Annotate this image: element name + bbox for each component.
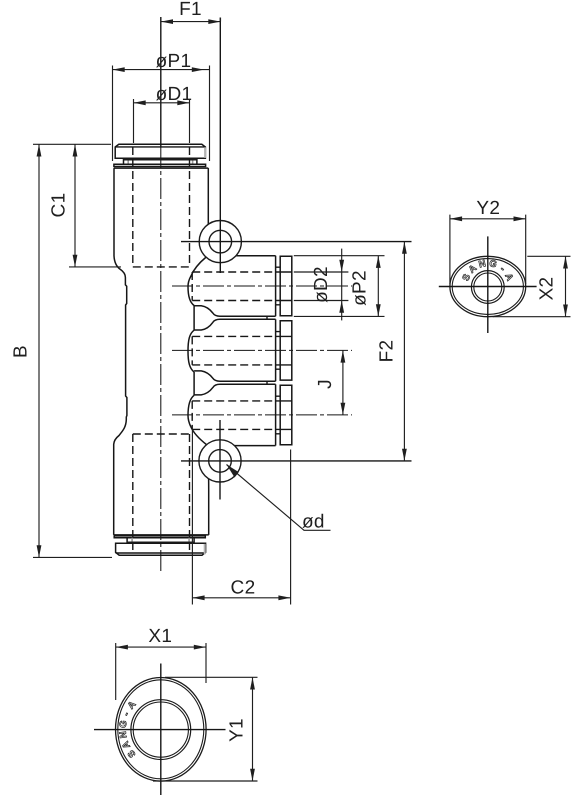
right view inner circle [471, 271, 504, 304]
right view outer oval [450, 256, 526, 316]
bottom view SANG-A engraving [118, 699, 139, 759]
svg-text:X2: X2 [537, 277, 558, 301]
svg-text:Y1: Y1 [226, 718, 247, 742]
branch 3 end face [275, 384, 277, 445]
branch 3 [172, 384, 352, 445]
bottom collet band [127, 538, 194, 544]
branch 1 [172, 256, 352, 317]
branch 2 bore hidden [192, 336, 275, 365]
dimension Y2 [450, 198, 526, 284]
branch 3 bore lines through cap [276, 401, 292, 430]
branch 3 centerline [172, 414, 352, 416]
stem tick 1 [266, 316, 268, 319]
body tube right edge (upper) [207, 168, 209, 226]
right view centerlines [439, 286, 537, 288]
svg-text:J: J [315, 379, 336, 389]
funnel 2 lower lip [194, 384, 276, 395]
svg-text:øP2: øP2 [350, 270, 371, 306]
scallop to bottom boss curve [191, 427, 207, 446]
branch 1 cap [280, 256, 292, 315]
right view SANG-A engraving [461, 258, 516, 283]
svg-text:ød: ød [302, 512, 325, 533]
bottom collet: tube bottom lines [114, 534, 209, 536]
svg-text:øP1: øP1 [156, 51, 192, 72]
funnel 1 upper lip [194, 306, 276, 316]
funnel 1 vertical face [193, 306, 195, 331]
svg-text:Y2: Y2 [476, 198, 500, 219]
dimension øD2 [294, 249, 349, 321]
svg-text:C2: C2 [231, 578, 256, 599]
stem tick 2 [266, 381, 268, 384]
dimension øP2 [294, 256, 385, 317]
bottom boss circle centerlines [219, 420, 221, 500]
dimension øD1 [134, 84, 193, 143]
scallop arc at branch 2 [188, 330, 194, 372]
branch 1 top edge [205, 255, 276, 257]
dimension Y1 [153, 677, 258, 781]
scallop arc at branch 3 [188, 395, 194, 426]
funnel 1 lower lip [194, 319, 276, 330]
branch 2 end face [275, 319, 277, 381]
dimension F1 [161, 0, 221, 24]
branch 3 bore hidden [192, 401, 275, 430]
svg-text:F2: F2 [377, 340, 398, 363]
svg-text:B: B [11, 345, 32, 358]
branch 1 end face [275, 256, 277, 317]
top collet lip [114, 164, 208, 168]
body tube right edge (lower) [208, 478, 210, 535]
dimension B [11, 144, 113, 557]
top collet band [123, 158, 197, 164]
body tube left edge [114, 168, 127, 535]
dimension C1 [33, 144, 121, 267]
svg-text:øD1: øD1 [156, 84, 193, 105]
branch 1 bore hidden [192, 272, 275, 301]
branch 3 cap [280, 385, 292, 444]
dimension J [315, 350, 345, 415]
svg-text:G: G [118, 720, 130, 729]
branch 3 neck [276, 396, 281, 434]
svg-text:F1: F1 [179, 0, 202, 20]
branch 2 neck [276, 332, 281, 370]
branch 1 centerline [172, 285, 352, 287]
scallop arc at branch 1 [188, 257, 206, 306]
branch 1 neck [276, 267, 281, 305]
branch 2 [172, 319, 352, 381]
top boss circle centerlines [219, 18, 221, 274]
bottom view centerlines [94, 729, 226, 731]
svg-text:øD2: øD2 [311, 266, 332, 303]
branch 2 bore lines through cap [276, 336, 292, 365]
dimension øP1 [113, 51, 210, 161]
dimension F2 [377, 242, 407, 461]
body centerline (vertical dash-dot) [160, 17, 162, 147]
funnel 2 upper lip [194, 371, 276, 381]
top bore hidden lines [133, 147, 190, 267]
top boss circle [199, 221, 241, 263]
funnel 2 vertical face [193, 372, 195, 395]
leader ød [227, 465, 331, 533]
dimension X2 [493, 256, 571, 316]
svg-text:X1: X1 [148, 626, 172, 647]
svg-text:C1: C1 [49, 193, 70, 218]
bottom view inner circle [131, 700, 191, 760]
bottom view outer oval [116, 678, 207, 782]
bottom bore hidden lines [133, 434, 190, 554]
dimension C2 [192, 429, 290, 605]
bottom collet cap [116, 543, 206, 555]
branch 2 cap [280, 321, 292, 380]
branch 3 bottom edge [205, 445, 276, 447]
bottom boss circle [199, 440, 241, 482]
top collet cap [115, 144, 206, 158]
branch 2 centerline [172, 349, 352, 351]
branch 1 bore lines through cap [276, 272, 292, 301]
dimension X1 [116, 626, 206, 700]
